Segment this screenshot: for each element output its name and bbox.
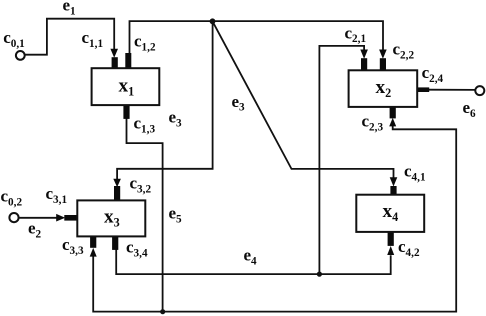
node junction e5 bottom bus — [160, 309, 165, 314]
wire e2 from terminal c0,2 to input c3,1 — [19, 217, 57, 219]
terminal c0,1 — [16, 51, 25, 60]
arrow c4,2 — [387, 246, 394, 255]
pin stub c1,3 — [123, 105, 129, 119]
wire e6 from output c2,4 to terminal — [429, 89, 476, 91]
arrow c3,1 — [56, 214, 65, 222]
arrow c3,2 — [113, 179, 121, 188]
arrow c2,3 — [389, 118, 396, 127]
block x1 — [92, 68, 160, 105]
pin stub c1,2 — [125, 53, 131, 69]
pin stub c3,4 — [112, 236, 118, 250]
arrow c4,1 — [390, 177, 398, 186]
pin stub c3,3 — [90, 236, 96, 248]
wire e3 diagonal branch to input c4,1 — [213, 21, 394, 178]
pin stub c1,1 — [112, 57, 118, 68]
block x2 — [349, 70, 418, 107]
wire e3 riser from output c1,2 up to top bus — [130, 21, 384, 54]
pin stub c4,2 — [388, 232, 394, 246]
wire e5 bottom bus from input c3,3 to input c2,3 — [93, 126, 456, 312]
arrow c3,3 — [90, 248, 97, 257]
arrow c1,1 — [110, 49, 118, 58]
wire e4 from output c3,4 along bottom to input c4,2 — [116, 249, 391, 274]
pin stub c2,1 — [361, 58, 367, 70]
pin stub c3,1 — [64, 215, 77, 221]
pin stub c2,4 — [417, 87, 429, 92]
block x3 — [77, 200, 145, 236]
arrow c2,1 — [360, 50, 368, 59]
node junction on top bus — [210, 18, 216, 24]
arrow c2,2 — [379, 50, 387, 59]
pin stub c3,2 — [114, 186, 120, 201]
pin stub c2,3 — [390, 107, 396, 119]
wire e4 branch up to input c2,1 — [319, 46, 364, 274]
wire e3 branch down to node then left to input c3,2 — [117, 21, 213, 180]
pin stub c4,1 — [390, 186, 396, 196]
terminal c0,2 — [9, 213, 18, 222]
block x4 — [356, 195, 424, 232]
pin stub c2,2 — [380, 58, 386, 70]
node junction e4/e2,1 branch — [317, 272, 322, 277]
terminal e6 — [475, 86, 484, 95]
wire e5 from output c1,3 down to bottom bus — [127, 118, 163, 312]
wire e1 from terminal c0,1 to input c1,1 — [25, 19, 115, 55]
